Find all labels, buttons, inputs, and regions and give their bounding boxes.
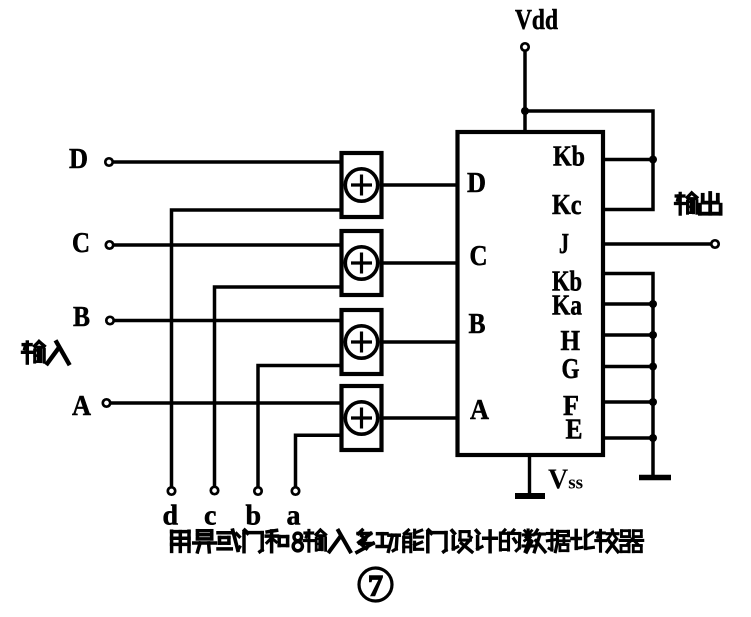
wire Vdd to Kc loop xyxy=(525,111,653,210)
svg-text:Ka: Ka xyxy=(552,291,582,322)
svg-text:D: D xyxy=(467,168,486,199)
wire b to XOR3 xyxy=(258,366,342,487)
wire XOR2 out to IC pin C xyxy=(382,261,458,265)
node c in (terminal) xyxy=(211,487,218,494)
wire Vdd drop xyxy=(523,52,527,135)
node A in (terminal) xyxy=(103,399,110,406)
wire XOR3 out to IC pin B xyxy=(382,340,458,344)
junction Vdd branch junction xyxy=(521,107,529,115)
wire a to XOR4 xyxy=(296,435,342,486)
XOR gate U3 (B xor b) xyxy=(342,310,382,374)
wire Kb2 to bus xyxy=(603,274,653,478)
wire B to XOR3 xyxy=(115,319,342,323)
svg-text:Vdd: Vdd xyxy=(515,5,558,36)
svg-text:7: 7 xyxy=(368,570,383,603)
svg-text:Kc: Kc xyxy=(552,190,582,221)
node output terminal (terminal) xyxy=(711,240,718,247)
wire Kb top pin wire xyxy=(603,158,653,162)
label caption: data comparator with XOR + 8-input gate xyxy=(172,530,643,552)
label shuru (input) xyxy=(23,342,69,364)
node a in (terminal) xyxy=(292,487,299,494)
svg-text:E: E xyxy=(566,415,583,446)
XOR gate U4 (A xor a) xyxy=(342,386,382,450)
wire C to XOR2 xyxy=(114,243,342,247)
wire A to XOR4 xyxy=(111,401,342,405)
svg-text:A: A xyxy=(72,391,92,422)
junction H junction xyxy=(649,331,657,339)
XOR gate U1 (D xor d) xyxy=(342,153,382,217)
wire d to XOR1 xyxy=(172,210,342,487)
junction F junction xyxy=(649,398,657,406)
ground Vss xyxy=(515,455,545,496)
svg-text:Kb: Kb xyxy=(553,142,585,173)
node d in (terminal) xyxy=(168,487,175,494)
svg-text:A: A xyxy=(470,395,490,426)
svg-text:B: B xyxy=(73,302,90,333)
wire F pin wire xyxy=(603,400,653,404)
junction G junction xyxy=(649,363,657,371)
node C in (terminal) xyxy=(106,241,113,248)
svg-text:C: C xyxy=(72,228,90,259)
svg-text:J: J xyxy=(559,229,569,260)
junction Ka junction xyxy=(649,300,657,308)
svg-text:H: H xyxy=(561,326,581,357)
svg-text:D: D xyxy=(69,144,88,175)
wire G pin wire xyxy=(603,365,653,369)
junction Kb-Vdd junction xyxy=(649,156,657,164)
node B in (terminal) xyxy=(106,317,113,324)
ground (right bus) xyxy=(639,475,671,481)
svg-text:b: b xyxy=(246,501,262,532)
svg-text:a: a xyxy=(287,501,301,532)
wire E pin wire xyxy=(603,436,653,440)
svg-text:G: G xyxy=(562,354,580,385)
svg-text:C: C xyxy=(470,241,488,272)
XOR gate U2 (C xor c) xyxy=(342,231,382,295)
wire D to XOR1 xyxy=(114,160,342,164)
junction E junction xyxy=(649,434,657,442)
node Vdd terminal (terminal) xyxy=(521,43,528,50)
svg-text:c: c xyxy=(204,501,216,532)
label shuchu (output) xyxy=(676,193,721,214)
wire Ka pin wire xyxy=(603,302,653,306)
wire XOR1 out to IC pin D xyxy=(382,183,458,187)
figure number 7 xyxy=(359,568,392,603)
wire XOR4 out to IC pin A xyxy=(382,416,458,420)
IC U5 (8-input multifunction gate) xyxy=(458,132,604,455)
wire J out xyxy=(603,242,711,246)
svg-text:d: d xyxy=(163,501,179,532)
node b in (terminal) xyxy=(254,487,261,494)
node D in (terminal) xyxy=(105,158,112,165)
wire c to XOR2 xyxy=(215,287,342,486)
wire H pin wire xyxy=(603,333,653,337)
svg-text:B: B xyxy=(469,309,486,340)
